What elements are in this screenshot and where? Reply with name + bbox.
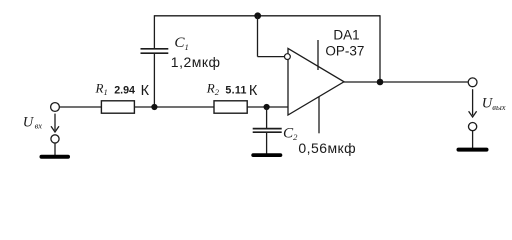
svg-text:OP-37: OP-37 [325,44,364,59]
svg-text:К: К [141,83,150,99]
node junction output/feedback [377,79,384,86]
svg-text:0,56мкф: 0,56мкф [298,140,356,156]
resistor R1 [101,101,134,113]
wire op-amp output [344,81,468,83]
svg-text:DA1: DA1 [333,27,359,42]
wire input to R1 [60,106,102,108]
input terminal circle [51,103,60,112]
capacitor C1 [141,49,169,53]
op-amp inverting bubble [285,54,291,60]
svg-text:5.11: 5.11 [225,85,246,97]
wire top feedback bus [154,15,380,17]
ground C2 [251,153,282,157]
output arrow [469,89,477,117]
wire R1 to R2 [134,106,214,108]
wire output ground stub [472,131,474,148]
svg-text:1,2мкф: 1,2мкф [171,54,221,70]
wire inverting input horizontal [258,56,285,58]
input lower terminal circle [51,135,59,143]
node junction C1/input [151,104,157,110]
resistor R2 [214,101,247,113]
input arrow [51,114,59,132]
op-amp U1 triangle [288,48,344,115]
wire C2 to ground [266,133,268,154]
wire C1 lower branch [153,54,155,107]
ground output [457,148,489,152]
output lower terminal circle [469,123,477,131]
op-amp power pin bottom [318,97,320,133]
wire inverting input vertical [257,16,259,57]
output terminal circle [468,78,477,87]
wire feedback right vertical [379,15,381,82]
wire R2 to op-amp [247,106,288,108]
wire input ground stub [54,143,56,155]
capacitor C2 [253,129,282,133]
wire C1 upper branch [153,15,155,48]
ground input [40,155,71,159]
op-amp power pin top [317,40,319,70]
wire C2 upper branch [266,107,268,128]
svg-text:2.94: 2.94 [114,85,135,97]
node junction feedback top [254,12,261,19]
node junction R2/C2 [264,104,270,110]
svg-text:К: К [249,83,258,99]
